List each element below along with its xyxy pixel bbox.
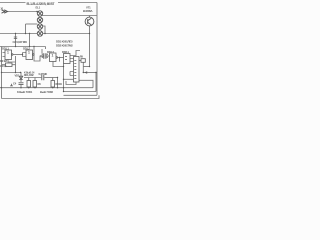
wire DD2.2 right stub to R9 — [79, 60, 81, 62]
wire x15.5 lower vertical — [15, 56, 17, 73]
op-amp gate DD1.1 — [5, 50, 13, 60]
svg-text:1: 1 — [7, 50, 9, 54]
lamp EL1 — [37, 11, 42, 16]
wire VT1 collector stub — [89, 16, 91, 18]
wire rail y46.5 — [0, 46, 46, 48]
svg-text:1: 1 — [28, 50, 30, 54]
wire left edge vertical — [1, 47, 3, 99]
wire vertical x29.5 — [29, 34, 31, 47]
resistor R5 — [27, 81, 31, 88]
resistor R8 — [51, 81, 55, 88]
wire y91.5 — [64, 91, 97, 93]
wire DD1.3 out to DD2.1 — [58, 57, 64, 59]
wire C3 to DD1.3 — [46, 55, 49, 57]
capacitor C2 drop wire — [15, 34, 17, 47]
wire DD2.1 bottom long vertical — [63, 64, 65, 92]
lamp EL2 — [37, 17, 42, 22]
junction dots — [1, 11, 97, 92]
svg-text:C1 0,1: C1 0,1 — [0, 64, 7, 68]
wire VT1 emitter vertical — [89, 26, 91, 67]
wire DD2.1 to DD2.2 stubs — [70, 59, 74, 62]
wire DD2.2 left pins — [70, 72, 74, 76]
wire feedback x57.5 lower — [57, 78, 59, 88]
capacitor C2 — [14, 37, 17, 39]
wire DD2.1 top right — [70, 51, 80, 56]
svg-text:BыB. 7 DD2: BыB. 7 DD2 — [40, 90, 54, 94]
capacitor C5 — [10, 84, 13, 86]
flip-flop DD2.1 — [64, 54, 71, 64]
wire R9 bottom vertical — [82, 62, 84, 72]
arrow on output wire — [84, 71, 87, 74]
plug X1 — [2, 10, 8, 13]
diode VD1 — [19, 76, 23, 79]
resistor R1 — [6, 63, 13, 67]
wire x96 vertical — [95, 73, 97, 92]
wire y72.5 right — [83, 72, 97, 74]
lamp EL3 — [37, 24, 42, 29]
svg-text:EL1: EL1 — [36, 5, 41, 9]
wire DD1.3 out stub down — [59, 58, 61, 62]
svg-text:R2 1M: R2 1M — [0, 59, 8, 63]
wire R1 stubs — [2, 64, 16, 66]
wire top rail right segment — [58, 2, 97, 4]
wire DD1.3 bottom to DD2.1 bottom net — [53, 62, 64, 67]
wire lamp chain vertical — [39, 11, 41, 37]
wire R6 stubs — [34, 78, 36, 88]
wire top rail left segment — [0, 2, 26, 4]
svg-text:DD1.2: DD1.2 — [23, 47, 30, 51]
svg-text:C2 0,047 MK: C2 0,047 MK — [13, 40, 28, 44]
svg-text:1: 1 — [52, 54, 54, 58]
svg-text:K BыB. 7 DD1: K BыB. 7 DD1 — [17, 90, 33, 94]
wire RC row y77.5 — [24, 77, 41, 79]
wire bottom perimeter horizontal — [64, 94, 98, 96]
svg-text:VD1: VD1 — [15, 73, 20, 77]
flip-flop DD2.2 — [74, 57, 80, 83]
lamp EL4 — [37, 31, 42, 36]
wire right rail y33.5 — [42, 33, 89, 35]
wire bottom rail y87.7 — [0, 87, 93, 89]
svg-text:BU208A: BU208A — [83, 9, 92, 13]
wire lamp bypass — [43, 26, 46, 34]
wire vertical x25.5 — [25, 24, 27, 34]
svg-text:DD1.1: DD1.1 — [2, 47, 9, 51]
op-amp gate DD1.3 — [50, 53, 58, 62]
wire lamp tap y24 — [26, 23, 38, 25]
svg-text:DD2 K561TM2: DD2 K561TM2 — [56, 43, 73, 47]
wire DD2.2 left lower pin — [64, 78, 74, 80]
wire R5 stubs — [28, 78, 30, 88]
svg-text:EL1-EL4 220 B, 60 BT: EL1-EL4 220 B, 60 BT — [27, 2, 55, 6]
svg-text:0,47 MK: 0,47 MK — [39, 72, 48, 76]
wire x34 to gate row — [34, 47, 43, 62]
capacitor C4 wire — [20, 85, 22, 88]
wire DD2.2 bottom — [66, 81, 76, 85]
wire R8 stubs — [52, 78, 54, 88]
wire bottom line y98.5 — [2, 95, 100, 98]
svg-text:DD1.3: DD1.3 — [47, 50, 54, 54]
capacitor C3 — [40, 53, 46, 59]
op-amp gate DD1.2 — [26, 50, 34, 60]
wire left rail y33.5 — [0, 33, 37, 35]
transistor VT1 — [85, 17, 94, 26]
capacitor C6 (0.47) — [42, 75, 44, 80]
wire DD2.2 right pin to corner — [79, 80, 93, 87]
wire DD1.1 out to DD1.2 — [13, 54, 23, 56]
wire DD1.2 inputs — [23, 53, 27, 57]
svg-text:DD2.1: DD2.1 — [62, 50, 69, 54]
wire rail y72.5 left — [2, 72, 22, 74]
wire emitter bottom link — [83, 66, 89, 68]
wire collector rail y15.5 — [42, 15, 98, 17]
wire DD1.1 inputs — [3, 53, 6, 57]
wire DD1.1 bottom — [8, 60, 16, 63]
svg-text:R8 1K: R8 1K — [56, 82, 63, 86]
resistor R9 — [81, 59, 85, 63]
capacitor C4 — [19, 83, 24, 85]
wire right perimeter vertical — [96, 3, 98, 96]
resistor R6 — [33, 81, 37, 88]
diode VD1 drop — [20, 73, 22, 83]
svg-text:DD1, DD2: DD1, DD2 — [24, 74, 34, 77]
wire plug to lamp chain — [7, 11, 40, 13]
wire arrow drop x42 — [45, 47, 47, 50]
